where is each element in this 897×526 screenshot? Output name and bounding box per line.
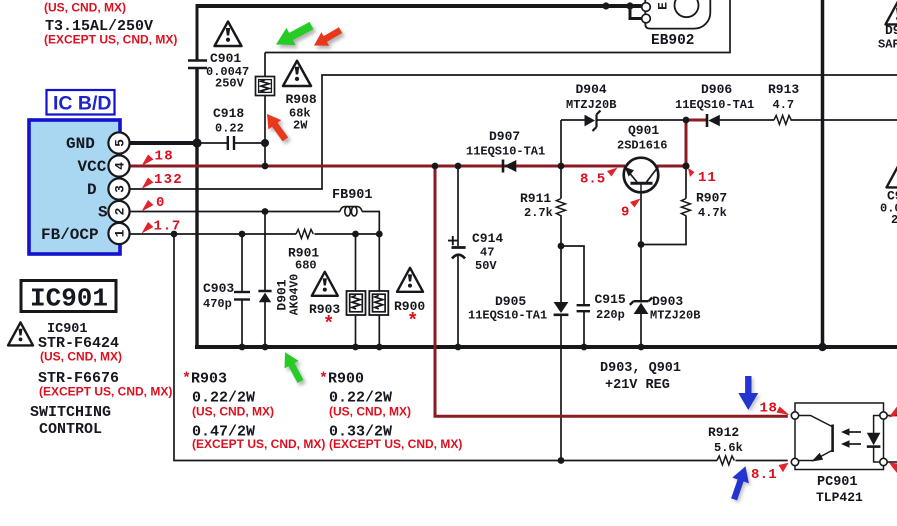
- svg-text:1.7: 1.7: [154, 219, 182, 235]
- svg-text:(US, CND, MX): (US, CND, MX): [40, 350, 122, 364]
- tick S: [142, 200, 154, 212]
- node top bus dot 2: [626, 2, 633, 9]
- svg-text:3: 3: [113, 185, 128, 193]
- wire top thick bus: [197, 4, 642, 8]
- svg-text:(EXCEPT US, CND, MX): (EXCEPT US, CND, MX): [329, 437, 462, 451]
- WIRES-MAROON: [130, 120, 788, 416]
- red arrow top: [310, 23, 344, 52]
- svg-text:SAF: SAF: [878, 38, 897, 52]
- wire EB902 second terminal L-link: [630, 6, 642, 19]
- svg-text:GND: GND: [66, 135, 95, 153]
- svg-text:2W: 2W: [293, 119, 308, 133]
- svg-text:R903: R903: [191, 371, 227, 388]
- wire FB/OCP pin1 net to R901 left: [130, 233, 296, 235]
- wire C903 branch top: [241, 234, 243, 292]
- node bus D901: [262, 344, 269, 351]
- warning triangle C901: [215, 22, 242, 46]
- svg-text:AK04V0: AK04V0: [289, 274, 302, 316]
- svg-text:Q901: Q901: [628, 123, 659, 138]
- zener D903: [630, 298, 652, 315]
- node GND pin to bus: [192, 138, 201, 147]
- node FB line to R903: [352, 231, 359, 238]
- wire D904 right to Q901 collector junction: [598, 119, 688, 121]
- inductor FB901: [340, 207, 362, 216]
- svg-text:R907: R907: [696, 191, 727, 206]
- svg-text:680: 680: [295, 259, 317, 273]
- wire R913 right to edge: [791, 119, 897, 121]
- wire C903 bottom to bus: [241, 300, 243, 347]
- diode D905: [554, 302, 569, 315]
- wire R907 top from collector junction: [685, 166, 687, 199]
- svg-text:220p: 220p: [596, 308, 625, 322]
- node base line to R907: [638, 241, 645, 248]
- svg-text:18: 18: [155, 149, 174, 165]
- WIRES-BLACK: [130, 0, 897, 462]
- wire D904 net y120 left segment: [561, 119, 585, 121]
- capacitor C901: [188, 61, 207, 69]
- warning triangle IC901: [8, 322, 33, 345]
- green arrow at ground bus: [278, 349, 308, 386]
- resistor R901: [296, 229, 313, 238]
- tick PC901 right bottom: [889, 463, 897, 474]
- pin 1 circle: [108, 223, 129, 244]
- pin 2 circle: [108, 201, 129, 222]
- svg-text:CONTROL: CONTROL: [39, 421, 102, 438]
- wire FB901 right side down to FB net: [362, 212, 379, 235]
- svg-text:47: 47: [480, 246, 494, 260]
- resistor R900 fusible boxed: [369, 291, 388, 315]
- wire left vertical bus upper (to C901): [196, 4, 199, 60]
- wire PC901 pin2 stub to right edge: [887, 461, 897, 463]
- svg-text:SWITCHING: SWITCHING: [30, 404, 111, 421]
- IC B/D title box: [47, 90, 115, 115]
- svg-text:0: 0: [156, 195, 164, 211]
- node FB line to R900/FB901: [376, 231, 383, 238]
- svg-text:FB901: FB901: [332, 188, 373, 203]
- wire R911 bottom to D905: [560, 215, 562, 302]
- diode D907: [503, 160, 516, 173]
- svg-text:E: E: [656, 2, 671, 10]
- svg-text:D906: D906: [701, 82, 732, 97]
- svg-text:8.1: 8.1: [751, 467, 777, 483]
- warning triangle right edge C902 partial: [887, 164, 897, 187]
- svg-text:R911: R911: [520, 191, 551, 206]
- svg-text:5.6k: 5.6k: [714, 441, 743, 455]
- svg-text:2: 2: [113, 207, 128, 215]
- wire D901 bottom to bus: [264, 302, 266, 347]
- wire D906 right to R913: [720, 119, 775, 121]
- svg-text:D907: D907: [489, 129, 520, 144]
- svg-text:C915: C915: [595, 292, 626, 307]
- tick D: [142, 178, 154, 190]
- svg-text:11EQS10-TA1: 11EQS10-TA1: [675, 98, 754, 112]
- tick FB: [142, 222, 154, 234]
- transistor Q901: [624, 158, 659, 193]
- svg-text:R912: R912: [708, 425, 739, 440]
- svg-text:(US, CND, MX): (US, CND, MX): [192, 405, 274, 419]
- resistor R911: [556, 199, 565, 216]
- svg-text:C914: C914: [472, 231, 503, 246]
- wire VCC maroon net pin4 to Q901 emitter: [130, 165, 625, 168]
- wire maroon collector junction up to D906: [686, 120, 706, 168]
- node VCC to R911/D905 line: [558, 163, 565, 170]
- capacitor C918: [228, 136, 234, 150]
- resistor R903 fusible boxed: [347, 291, 366, 315]
- svg-text:MTZJ20B: MTZJ20B: [650, 309, 700, 323]
- wire feedback return: down from FB net, right to R912: [174, 234, 717, 461]
- wire bottom ground bus: [195, 345, 897, 349]
- node bus right vertical: [818, 343, 826, 351]
- wire R908 top from EB902 line: [264, 53, 266, 77]
- svg-text:11: 11: [698, 170, 717, 186]
- svg-text:C903: C903: [203, 281, 234, 296]
- pin 5 circle: [108, 132, 129, 153]
- svg-text:D903: D903: [652, 294, 683, 309]
- node C918/R908 junction: [261, 139, 269, 147]
- capacitor C914 electrolytic: [448, 236, 466, 259]
- svg-text:C918: C918: [213, 106, 244, 121]
- node FB line to feedback return: [171, 231, 178, 238]
- capacitor C903: [234, 292, 250, 300]
- svg-text:TLP421: TLP421: [816, 490, 863, 505]
- wire left vertical bus lower (C901 to GND corner): [195, 69, 198, 346]
- svg-text:4: 4: [113, 162, 128, 170]
- warning triangle R908: [283, 61, 311, 86]
- svg-text:D901: D901: [275, 279, 290, 310]
- svg-text:4.7k: 4.7k: [698, 206, 727, 220]
- svg-text:*: *: [182, 371, 191, 388]
- node bus D903: [638, 344, 645, 351]
- IC901 title box: [21, 281, 116, 314]
- svg-text:D905: D905: [495, 294, 526, 309]
- svg-text:132: 132: [154, 172, 183, 188]
- svg-text:11EQS10-TA1: 11EQS10-TA1: [466, 145, 545, 159]
- wire R903 bottom to bus: [355, 315, 357, 347]
- warning triangle right edge D902 partial: [886, 1, 897, 24]
- earth bead EB902: [642, 0, 711, 29]
- capacitor C915: [577, 305, 590, 311]
- wire Q901 collector side maroon to junction: [657, 165, 688, 168]
- node Q901 collector junction: [682, 162, 689, 169]
- zener D904: [585, 111, 601, 132]
- tick 8.5: [607, 168, 618, 177]
- svg-text:4.7: 4.7: [773, 98, 795, 112]
- node top bus dot 1: [602, 2, 609, 9]
- diode D906: [707, 114, 720, 127]
- svg-text:2SD1616: 2SD1616: [617, 139, 667, 153]
- tick 8.1: [779, 463, 789, 473]
- wire C915 branch top: [561, 246, 584, 304]
- wire S pin2 to FB901: [130, 211, 340, 213]
- svg-text:(EXCEPT US, CND, MX): (EXCEPT US, CND, MX): [192, 437, 325, 451]
- wire R900 bottom to bus: [378, 315, 380, 347]
- node D905 line to R912 line: [558, 457, 565, 464]
- svg-text:250V: 250V: [215, 77, 245, 91]
- tick 9: [630, 199, 641, 208]
- blue arrow down at 18: [738, 376, 758, 410]
- svg-text:*: *: [323, 313, 334, 335]
- svg-text:2.7k: 2.7k: [524, 206, 553, 220]
- svg-text:FB/OCP: FB/OCP: [41, 226, 99, 244]
- tick 11: [688, 168, 695, 177]
- blue arrow up at 8.1: [726, 463, 754, 502]
- node R911 to C915 branch: [558, 243, 565, 250]
- svg-text:D9: D9: [885, 23, 897, 38]
- svg-text:9: 9: [621, 205, 629, 221]
- wire D905 bottom crossing bus to R912 net: [560, 316, 562, 461]
- svg-text:D: D: [87, 181, 97, 199]
- tick PC901 right top: [889, 407, 897, 418]
- wire R908 bottom to VCC net: [264, 96, 266, 167]
- warning triangle R900: [397, 268, 423, 292]
- node VCC to +21V branch: [432, 163, 439, 170]
- svg-text:S: S: [98, 204, 108, 222]
- wire Q901 base down to D903: [640, 190, 642, 303]
- wire D901 branch top: [264, 212, 266, 292]
- wire EB902 bottom line to top edge: [265, 0, 730, 53]
- svg-text:18: 18: [760, 401, 778, 417]
- node bus R900: [376, 344, 383, 351]
- tick VCC: [142, 155, 154, 167]
- svg-text:MTZJ20B: MTZJ20B: [566, 98, 616, 112]
- resistor R908 fusible boxed: [256, 77, 275, 96]
- wire R912 right to PC901 pin4: [736, 460, 788, 462]
- svg-text:(US, CND, MX): (US, CND, MX): [329, 405, 411, 419]
- svg-text:8.5: 8.5: [580, 172, 605, 188]
- svg-text:50V: 50V: [475, 259, 497, 273]
- node bus C903: [239, 344, 246, 351]
- node bus C915: [581, 344, 588, 351]
- red arrow at C918: [261, 109, 292, 144]
- svg-text:D903, Q901: D903, Q901: [600, 361, 681, 376]
- svg-text:R913: R913: [768, 82, 799, 97]
- svg-text:C901: C901: [210, 51, 241, 66]
- node D904/D906 junction: [683, 117, 690, 124]
- wire D903 bottom to bus: [640, 314, 642, 348]
- wire R900 branch top: [378, 234, 380, 291]
- svg-text:PC901: PC901: [817, 475, 858, 490]
- node R908 to VCC: [262, 163, 269, 170]
- resistor R912: [717, 456, 734, 465]
- warning triangle R903: [312, 272, 338, 296]
- wire C915 bottom to bus: [583, 310, 585, 347]
- wire R911 top from y120 corner: [560, 120, 562, 199]
- wire R901 right to R900 top: [315, 233, 380, 235]
- wire maroon +21V branch down and right to PC901 pin1: [435, 165, 788, 417]
- svg-text:(EXCEPT US, CND, MX): (EXCEPT US, CND, MX): [44, 33, 177, 47]
- node bus R903: [352, 344, 359, 351]
- svg-text:2: 2: [891, 213, 897, 227]
- svg-text:R908: R908: [286, 92, 317, 107]
- pin 3 circle: [108, 178, 129, 199]
- svg-text:+21V REG: +21V REG: [605, 378, 670, 393]
- node FB line to C903: [239, 231, 246, 238]
- svg-text:*: *: [319, 371, 328, 388]
- wire right vertical thick line: [821, 0, 825, 347]
- wire C914 bottom to bus: [457, 255, 459, 347]
- node S line to D901: [262, 208, 269, 215]
- svg-text:IC901: IC901: [30, 284, 108, 314]
- wire D pin3 net: right, up, right to edge: [130, 75, 897, 189]
- wire PC901 pin3 stub to right edge: [887, 415, 897, 417]
- svg-text:EB902: EB902: [651, 33, 695, 49]
- svg-text:(EXCEPT US, CND, MX): (EXCEPT US, CND, MX): [39, 385, 172, 399]
- resistor R913: [774, 115, 791, 124]
- wire GND pin5 to bus: [130, 141, 199, 145]
- wire C918 left lead: [199, 142, 227, 144]
- svg-text:*: *: [407, 310, 418, 332]
- green arrow top: [271, 17, 316, 53]
- node bus C914: [455, 344, 462, 351]
- svg-text:5: 5: [113, 139, 128, 147]
- svg-text:11EQS10-TA1: 11EQS10-TA1: [468, 309, 547, 323]
- wire R907 bottom to base line: [641, 216, 686, 245]
- svg-text:(US, CND, MX): (US, CND, MX): [44, 1, 126, 15]
- svg-text:1: 1: [113, 229, 128, 237]
- resistor R907: [681, 199, 690, 216]
- svg-text:IC B/D: IC B/D: [53, 93, 112, 115]
- diode D901: [258, 291, 271, 302]
- wire C918 right lead: [235, 142, 266, 144]
- node VCC to C914: [455, 163, 462, 170]
- svg-text:VCC: VCC: [78, 158, 107, 176]
- wire R903 branch top: [355, 234, 357, 291]
- optocoupler PC901: [791, 403, 887, 470]
- svg-text:R900: R900: [328, 371, 364, 388]
- IC B/D block body: [29, 120, 120, 254]
- wire C914 branch top: [457, 166, 459, 246]
- tick 18 PC901: [777, 407, 790, 416]
- svg-text:0.22: 0.22: [215, 122, 244, 136]
- pin 4 circle: [108, 155, 129, 176]
- svg-text:D904: D904: [576, 82, 607, 97]
- svg-text:470p: 470p: [203, 297, 232, 311]
